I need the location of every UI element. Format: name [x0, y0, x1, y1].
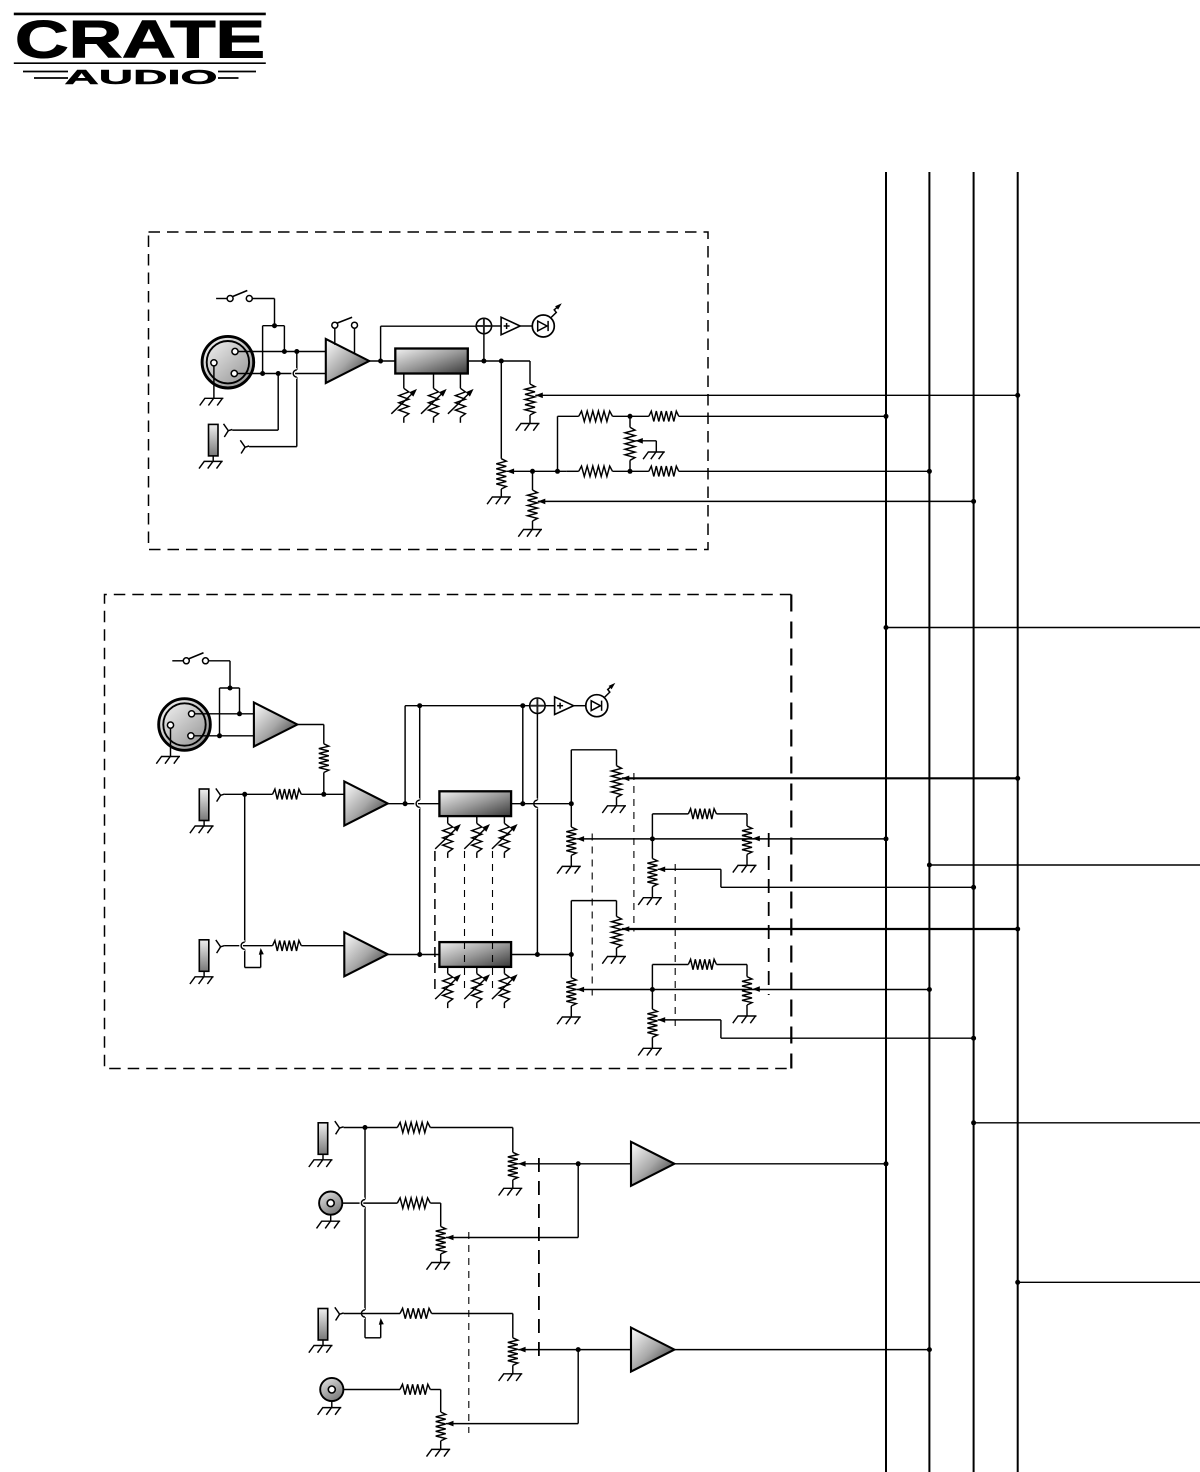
jack J5 tip contact	[216, 940, 225, 947]
ground VR-pan-R	[570, 1006, 572, 1017]
EQ ch1 leg 2	[433, 374, 435, 389]
channel 2 enclosure right edge (heavy dash)	[790, 595, 792, 1069]
wire J5 tip	[225, 945, 273, 947]
jack J8 switch loop	[365, 1337, 381, 1339]
pot VR-right-L wiper arrow	[752, 836, 760, 842]
resistor R2	[649, 411, 679, 421]
wire J3 pin3	[194, 735, 254, 737]
node tip-pin3	[276, 371, 281, 376]
XLR connector J3	[159, 699, 211, 751]
node detect top B	[520, 703, 525, 708]
wire VR6 wiper to ground	[635, 440, 656, 442]
wire R6 to U3	[301, 793, 344, 795]
Crate Audio logo	[14, 11, 266, 89]
node bus4-ch1	[1015, 393, 1020, 398]
wire EQ out to pan ch1	[500, 361, 502, 459]
resistor R1	[579, 411, 613, 421]
wire node down to pan pot L	[570, 804, 572, 827]
wire detect tap EQ1 out	[522, 706, 524, 804]
wire J3 pin2	[195, 713, 254, 715]
EQ L trimmer VR9	[472, 823, 482, 852]
wire fx wiper step L	[658, 868, 721, 870]
EQ L leg 2	[476, 816, 478, 823]
pot VR-fx-R	[647, 1009, 657, 1037]
node bus1 takeoff	[884, 625, 889, 630]
node wiper row B	[555, 469, 560, 474]
pot VR-pan-L wiper arrow	[577, 836, 585, 842]
wire S1 to bracket	[252, 298, 274, 300]
ground VR-pan-L	[570, 855, 572, 866]
wire U6 output to bus 2	[674, 1349, 929, 1351]
svg-text:CRATE: CRATE	[15, 11, 265, 70]
pot VR15 (tape L level)	[436, 1227, 446, 1255]
node net-L	[650, 836, 655, 841]
wire J9 out	[343, 1389, 400, 1391]
wire normal link ch-L	[244, 794, 246, 942]
wire riser to volume pot R	[570, 901, 572, 955]
jack J6 tip contact	[335, 1121, 344, 1128]
node EQ2 out end	[569, 952, 574, 957]
EQ R trimmer VR12	[472, 974, 482, 1003]
signal LED detector D1	[476, 318, 491, 333]
wire EQ ch1 output	[468, 360, 530, 362]
pot VR16 wiper arrow	[518, 1347, 526, 1353]
wire U2 output	[297, 724, 324, 726]
wire bus1 out right	[886, 627, 1200, 629]
wire S3 to bracket	[209, 660, 230, 662]
EQ block ch2-L	[439, 791, 511, 816]
EQ R leg 1	[447, 967, 449, 974]
wire VR17 wiper up to mix	[446, 1423, 578, 1425]
XLR connector J1	[202, 336, 254, 388]
node J6 tip	[363, 1125, 368, 1130]
wire R11 to pot	[430, 1389, 440, 1391]
jack J2 tip contact	[224, 424, 233, 431]
node S1 junction	[272, 323, 277, 328]
pot VR5 wiper arrow	[507, 469, 514, 475]
op-amp U3 (ch2 L)	[344, 782, 387, 826]
pot VR-fx-L wiper arrow	[658, 867, 666, 873]
switch S1 (pad)	[216, 298, 227, 300]
node bracket-J3pin3	[217, 733, 222, 738]
wire U3 output	[388, 803, 440, 805]
wire VR4 wiper to bus 4	[535, 394, 1017, 396]
op-amp U1 (mic pre ch1)	[326, 339, 369, 383]
wire J6 tip	[344, 1127, 398, 1129]
RCA connector J9 (tape R)	[320, 1378, 343, 1401]
wire U5 output to bus 1	[674, 1163, 886, 1165]
op-amp U2 (mic pre ch2)	[254, 703, 297, 747]
op-amp U5 (aux L)	[631, 1142, 674, 1186]
pot VR-right-L	[742, 826, 752, 854]
EQ R leg 3	[503, 967, 505, 974]
wire up to send row	[557, 416, 559, 471]
wire hop J2 ring over pin3	[293, 370, 297, 377]
ground VR6	[648, 451, 665, 453]
ground VR-vol-R	[616, 948, 618, 957]
pot VR-vol-L	[612, 766, 622, 798]
ground J3	[161, 756, 180, 758]
resistor R4	[649, 466, 679, 476]
EQ L trimmer VR10	[499, 823, 509, 852]
wire J3 pin1 to ground	[170, 728, 172, 756]
wire pan wiper row R	[577, 989, 930, 991]
wire summer to EQ out node	[483, 334, 485, 361]
node bus1-aux	[884, 1161, 889, 1166]
gang dash vol pots	[633, 773, 635, 932]
svg-text:AUDIO: AUDIO	[65, 66, 218, 89]
EQ R leg 2	[476, 967, 478, 974]
node EQ out B	[499, 359, 504, 364]
wire hop normal over J8 tip	[361, 1310, 365, 1317]
wire bus4 out right	[1018, 1281, 1200, 1283]
jack J4 tip contact	[216, 788, 225, 795]
node detect top A	[417, 703, 422, 708]
wire EQ2 output row	[511, 954, 571, 956]
ground VR14	[512, 1180, 514, 1189]
pot VR7 wiper arrow	[538, 499, 546, 505]
channel 2 dashed enclosure	[105, 595, 792, 1069]
channel 1 dashed enclosure	[149, 232, 709, 550]
pot VR-vol-R wiper arrow	[622, 926, 630, 932]
pot VR17 (tape R level)	[436, 1412, 446, 1441]
node bracket-pin3	[260, 371, 265, 376]
node bus-vol-R	[1015, 927, 1020, 932]
ground VR-fx-L	[651, 887, 653, 898]
ground J7	[330, 1215, 332, 1222]
wire bus3 out right	[974, 1122, 1200, 1124]
EQ R trimmer VR11	[443, 974, 453, 1003]
EQ ch1 trimmer VR2	[429, 388, 439, 417]
node summer2-EQ2 out	[535, 952, 540, 957]
wire EQ1 output row	[511, 803, 571, 805]
node bus3-ch1	[971, 499, 976, 504]
wire vol wiper to bus R	[622, 928, 1018, 930]
phantom bracket ch2	[220, 687, 240, 689]
ground VR-fx-R	[651, 1037, 653, 1048]
wire hop normal over J7 line	[361, 1200, 365, 1207]
ground J1	[204, 397, 223, 399]
node R3-R4	[628, 469, 633, 474]
ground VR4	[529, 415, 531, 424]
signal LED detector D2	[530, 698, 545, 713]
jack J5 (line in R)	[199, 940, 209, 972]
pot VR7 (effects ch1)	[528, 490, 538, 521]
bus line 3 (vertical)	[973, 172, 975, 1472]
node mix aux L	[576, 1161, 581, 1166]
node net-R	[650, 987, 655, 992]
wire R2 to bus 1	[679, 415, 886, 417]
ground VR5	[500, 489, 502, 497]
wire summer2 down	[536, 713, 538, 800]
ground VR16	[512, 1365, 514, 1374]
wire to volume pot ch1	[529, 361, 531, 384]
wire U1 out to summer	[380, 326, 382, 361]
wire VR15 wiper up to mix	[446, 1237, 578, 1239]
node bracket-pin2	[282, 349, 287, 354]
wire to right pot R	[717, 964, 748, 966]
switch S3 (pad ch2)	[172, 660, 183, 662]
wire R1 to node	[613, 415, 649, 417]
jack J2 ring contact	[240, 440, 249, 447]
gang dash EQ 1	[434, 851, 436, 994]
ground VR-right-L	[746, 854, 748, 865]
gang dash EQ 2	[464, 851, 466, 994]
node bus-pan-L	[884, 836, 889, 841]
wire VR7 wiper to bus 3	[538, 500, 974, 502]
jack J8 tip contact	[335, 1307, 344, 1314]
ground VR15	[440, 1254, 442, 1263]
pot VR16 (aux R level)	[508, 1338, 518, 1366]
resistor R9	[397, 1198, 430, 1208]
ground J5	[203, 971, 205, 977]
node EQ1 out end	[569, 801, 574, 806]
gang dash EQ 3	[492, 851, 494, 994]
node dropper-EQ2 in	[417, 952, 422, 957]
node mix aux R	[576, 1347, 581, 1352]
wire riser to volume pot L	[570, 750, 572, 804]
wire J4 tip	[225, 793, 245, 795]
node S3 junction	[228, 686, 233, 691]
pot VR-pan-L	[566, 827, 576, 855]
wire VR14 wiper to U5	[518, 1163, 631, 1165]
wire R5 to node	[323, 773, 325, 795]
gang dash right pots (heavy)	[768, 833, 770, 995]
wire R4 to bus 2	[679, 470, 930, 472]
wire J7 out	[342, 1202, 397, 1204]
node EQ out A	[481, 359, 486, 364]
wire net down to fx pot R	[651, 990, 653, 1010]
ground J9	[331, 1401, 333, 1408]
wire VR5 wiper row	[507, 470, 567, 472]
pot VR-right-R	[742, 977, 752, 1005]
node bracket-J3pin2	[237, 711, 242, 716]
wire pan wiper row L	[577, 838, 886, 840]
pot VR-vol-L wiper arrow	[622, 776, 630, 782]
bus line 4 (vertical)	[1017, 172, 1019, 1472]
wire net riser L	[651, 814, 653, 839]
resistor R7	[273, 941, 302, 951]
node bus-fx-R	[971, 1036, 976, 1041]
node wiper row A	[530, 469, 535, 474]
jack J6 (aux L)	[318, 1123, 328, 1155]
pot VR14 (aux L level)	[508, 1152, 518, 1180]
wire J2 ring	[249, 446, 297, 448]
resistor R6	[273, 789, 302, 799]
EQ block ch1	[395, 349, 468, 374]
EQ L trimmer VR8	[443, 823, 453, 852]
EQ L leg 1	[447, 816, 449, 823]
resistor R3	[579, 466, 613, 476]
resistor R10	[400, 1308, 432, 1318]
bus line 2 (vertical)	[928, 172, 930, 1472]
wire to effects pot ch1	[532, 471, 534, 490]
wire hop normal over J5 tip	[241, 942, 245, 949]
gang dash tape pots	[468, 1232, 470, 1433]
pot VR6 (mid trim ch1)	[629, 416, 631, 427]
pot VR-right-R wiper arrow	[752, 986, 760, 992]
wire net riser R	[651, 965, 653, 990]
jack J5 switch loop	[245, 967, 261, 969]
node U1 out	[378, 359, 383, 364]
wire R7 to U4	[301, 945, 344, 947]
jack J8 (aux R)	[318, 1309, 328, 1341]
wire hop dropper over L row	[416, 800, 420, 807]
node bus2-ch1	[927, 469, 932, 474]
ground VR17	[440, 1441, 442, 1450]
pot VR17 wiper arrow	[446, 1421, 454, 1427]
wire J1 pin1 to ground	[213, 366, 215, 398]
EQ ch1 leg 1	[403, 374, 405, 389]
op-amp U4 (ch2 R)	[344, 932, 387, 976]
pot VR5 (pan ch1)	[496, 459, 506, 489]
gang dash fx pots	[674, 864, 676, 1026]
EQ R trimmer VR13	[499, 974, 509, 1003]
wire fx wiper step R	[658, 1019, 721, 1021]
pot VR14 wiper arrow	[518, 1161, 526, 1167]
node R1-R2	[628, 414, 633, 419]
op-amp U6 (aux R)	[631, 1328, 674, 1372]
wire normal link aux	[364, 1128, 366, 1200]
wire node down to pan pot R	[570, 955, 572, 978]
RCA connector J7 (tape L)	[319, 1192, 342, 1215]
gain switch S2 on U1	[334, 328, 336, 345]
node bus1-ch1	[884, 414, 889, 419]
wire vol wiper to bus L	[622, 777, 1018, 779]
wire to right pot L	[717, 813, 748, 815]
wire detect riser 1	[404, 706, 406, 804]
pot VR-fx-R wiper arrow	[658, 1017, 666, 1023]
wire R9 to pot	[430, 1202, 440, 1204]
resistor R5 (mic mix)	[319, 744, 329, 773]
EQ block ch2-R	[439, 942, 511, 967]
wire R3 to node	[566, 470, 578, 472]
ground VR7	[532, 521, 534, 530]
pot VR-vol-R	[612, 916, 622, 948]
EQ ch1 trimmer VR3	[455, 388, 465, 417]
wire J1 pin2 (hot)	[238, 351, 326, 353]
gang dash aux pots (heavy)	[538, 1158, 540, 1360]
wire detect dropper to EQ2 in	[419, 706, 421, 800]
wire R10 to pot	[432, 1313, 513, 1315]
resistor R11	[400, 1384, 430, 1394]
wire J2 tip	[232, 429, 278, 431]
jack J2 (line in ch1)	[209, 424, 219, 456]
wire VR16 wiper to U6	[518, 1349, 631, 1351]
node bus2-aux	[927, 1347, 932, 1352]
wire net down to fx pot L	[651, 839, 653, 859]
node bus4 takeoff	[1015, 1280, 1020, 1285]
pot VR4 (level ch1)	[525, 384, 535, 415]
ground J6	[322, 1154, 324, 1160]
node bus-pan-R	[927, 987, 932, 992]
node bus-vol-L	[1015, 776, 1020, 781]
EQ L leg 3	[503, 816, 505, 823]
jack J4 (line in L)	[199, 789, 209, 821]
resistor R-net-L	[688, 809, 716, 819]
node J4 tip junction	[242, 792, 247, 797]
ground VR-right-R	[746, 1005, 748, 1016]
ground J4	[203, 821, 205, 827]
bus line 1 (vertical)	[885, 172, 887, 1472]
ground VR-vol-L	[616, 797, 618, 806]
ground J8	[322, 1340, 324, 1346]
pot VR6 wiper arrow	[635, 438, 643, 444]
EQ ch1 trimmer VR1	[399, 388, 409, 417]
resistor R8	[397, 1122, 430, 1132]
pot VR-pan-R wiper arrow	[577, 987, 585, 993]
wire J1 pin3 (cold)	[237, 373, 325, 375]
node tap-EQ1 out	[520, 801, 525, 806]
node bus3 takeoff	[971, 1120, 976, 1125]
node R5-R6 mix	[321, 792, 326, 797]
pot VR15 wiper arrow	[446, 1235, 454, 1241]
node bus2 takeoff	[927, 863, 932, 868]
wire U4 output	[388, 954, 440, 956]
pot VR4 wiper arrow	[535, 393, 543, 399]
wire R8 to pot	[430, 1127, 513, 1129]
wire J8 tip	[344, 1313, 400, 1315]
phantom bracket wires	[263, 325, 285, 327]
node U3 out	[403, 801, 408, 806]
node bus-fx-L	[971, 885, 976, 890]
ground J2	[212, 456, 214, 462]
EQ ch1 leg 3	[459, 374, 461, 389]
wire J4 to R6	[245, 793, 273, 795]
pot VR-pan-R	[566, 978, 576, 1006]
wire bus2 out right	[929, 864, 1200, 866]
pot VR-fx-L	[647, 859, 657, 887]
node ring-pin2	[294, 349, 299, 354]
resistor R-net-R	[688, 959, 716, 969]
wire U1 output	[369, 360, 395, 362]
wire hop summer2 over L row	[534, 800, 538, 807]
gang dash pan pots	[591, 834, 593, 996]
